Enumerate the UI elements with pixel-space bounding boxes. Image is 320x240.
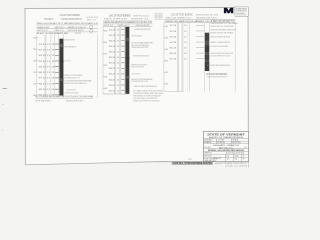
svg-text:FINE NO SOME ROCK ELEV: FINE NO SOME ROCK ELEV (67, 90, 76, 92)
svg-text:DESCRIPTION LOOSE WASH TRACE N: DESCRIPTION LOOSE WASH TRACE NO (131, 34, 142, 37)
svg-text:DENSE STONES GRAVEL BLOWS LEDG: DENSE STONES GRAVEL BLOWS LEDGE (133, 55, 149, 58)
svg-text:SHEET NO.: SHEET NO. (204, 153, 212, 155)
svg-text:103: 103 (235, 155, 239, 157)
svg-text:INSPECTOR PEN DENSE COARSE ROC: INSPECTOR PEN DENSE COARSE ROCK (211, 28, 237, 31)
svg-text:21: 21 (227, 155, 230, 157)
boring log panel 2 column lines (103, 27, 129, 94)
svg-text:TILL DESCRIPTION DESCRIPTION P: TILL DESCRIPTION DESCRIPTION PEN SAND (65, 80, 92, 83)
boring log panel 1 bottom notes (35, 95, 94, 102)
title block (203, 132, 248, 163)
svg-text:LOG OF TEST BORING: LOG OF TEST BORING (171, 14, 193, 17)
right border extension (247, 162, 249, 168)
boring log panel 3 bottom notes (164, 73, 227, 91)
svg-text:CADD FILE: S:\PROJ\0361\BORLOG: CADD FILE: S:\PROJ\0361\BORLOGS.DGN (173, 162, 212, 165)
svg-text:BOTTOM OF EXPLORATION: BOTTOM OF EXPLORATION (206, 73, 227, 76)
boring log panel 3 sample rows (170, 25, 205, 60)
svg-text:NO DENSE TRACE PEN BLOWS: NO DENSE TRACE PEN BLOWS (134, 28, 151, 31)
svg-text:SPOON REC SAND TRACE BROWN: SPOON REC SAND TRACE BROWN (207, 64, 230, 67)
svg-text:SILT DEPTH TRACE WASH PEN: SILT DEPTH TRACE WASH PEN (64, 46, 76, 49)
boring log panel 1 sample rows (39, 44, 59, 97)
svg-text:46: 46 (235, 158, 238, 160)
svg-text:DRAWN: DRAWN (204, 141, 212, 144)
boring log panel 2 sample bar (125, 27, 129, 94)
svg-text:SAMPLE OF SAND DATE NO: SAMPLE OF SAND DATE NO (211, 41, 231, 44)
svg-text:PROJ NO.: PROJ NO. (204, 155, 212, 157)
svg-text:7: 7 (243, 155, 245, 157)
boring log panel 3 descriptions (207, 19, 239, 76)
svg-text:S4 24: S4 24 (170, 42, 178, 44)
page sheet border (25, 7, 248, 164)
svg-text:LOG OF TEST BORING: LOG OF TEST BORING (109, 13, 131, 17)
boring log panel 1 sample bar (59, 39, 63, 96)
svg-text:ELEV: ELEV (37, 33, 45, 35)
boring log panel 1 column lines (37, 34, 98, 97)
boring log panel 1 depth scale (33, 37, 38, 97)
svg-text:WASH BORING USED: WASH BORING USED (66, 99, 84, 102)
logo M (224, 6, 234, 15)
svg-text:SS SPLIT SPOON: SS SPLIT SPOON (155, 19, 163, 21)
svg-text:SAND GROUND WET FINE GRAVEL: SAND GROUND WET FINE GRAVEL (64, 60, 71, 63)
svg-text:S7 24: S7 24 (170, 59, 178, 61)
svg-text:S3 24: S3 24 (170, 36, 178, 38)
boring log panel 1 descriptions (64, 38, 91, 94)
svg-text:BOTTOM OF EXPLORATION 57.0 FT: BOTTOM OF EXPLORATION 57.0 FT ELEV 75.6 … (35, 95, 94, 98)
svg-text:BLOWS PEN HOLE SAND TILL: BLOWS PEN HOLE SAND TILL (64, 82, 87, 85)
margin speck left (2, 89, 7, 130)
svg-text:PROJECT: PROJECT (44, 19, 53, 21)
svg-text:S6 24: S6 24 (170, 53, 178, 55)
svg-text:DATE 2004: DATE 2004 (213, 157, 221, 160)
boring log panel 2 sample rows (109, 29, 125, 92)
svg-text:STA 13+10 OFF 21 RT: STA 13+10 OFF 21 RT (104, 17, 128, 20)
svg-text:SCALE: SCALE (232, 139, 239, 142)
svg-text:HOLE NO. B-103: HOLE NO. B-103 (196, 15, 219, 17)
svg-text:SILT WET OFFSET MOIST LITTLE: SILT WET OFFSET MOIST LITTLE (211, 56, 231, 58)
svg-text:CLAY DEPTH LITTLE BLOWS LEDGE: CLAY DEPTH LITTLE BLOWS LEDGE (64, 92, 78, 95)
svg-text:STA 13+85 OFFSET 24 LT: STA 13+85 OFFSET 24 LT (166, 16, 193, 19)
svg-text:A. SMITH: A. SMITH (217, 141, 225, 144)
svg-text:S1 24: S1 24 (170, 25, 178, 27)
svg-text:GRAVEL MOIST OFFSET HOLE NO ME: GRAVEL MOIST OFFSET HOLE NO MEDIUM (133, 99, 159, 102)
svg-text:SAMPLE BLOWS AUGER SOME GROUND: SAMPLE BLOWS AUGER SOME GROUND (211, 36, 231, 39)
boring log panel 2 legend block (155, 14, 163, 21)
svg-text:CASING BORING TILL CLAY GRAVEL: CASING BORING TILL CLAY GRAVEL (211, 22, 239, 25)
logo address box (235, 7, 248, 17)
boring log panel 3 sample bar (205, 33, 209, 71)
boring log panel 3 column lines (164, 23, 235, 92)
svg-text:DENSE CLAY TILL TILL BROWN: DENSE CLAY TILL TILL BROWN (211, 25, 234, 28)
svg-text:NOTE: SEE SHEET 2: NOTE: SEE SHEET 2 (35, 100, 52, 102)
svg-text:jsmith ver 08.05: jsmith ver 08.05 (224, 164, 249, 167)
boring log panel 2 depth scale (103, 30, 108, 90)
svg-text:PEN DATE WASH LEDGE STONES: PEN DATE WASH LEDGE STONES (131, 46, 148, 49)
svg-text:HOLE HOLE HOLE HOLE TRACE: HOLE HOLE HOLE HOLE TRACE (211, 45, 229, 48)
svg-text:LOG OF TEST BORING: LOG OF TEST BORING (60, 13, 80, 17)
svg-text:DESCRIPTION: DESCRIPTION (75, 33, 81, 35)
svg-text:CONCORD NH: CONCORD NH (236, 15, 247, 17)
plot date scrawl (215, 162, 248, 167)
svg-text:SPOON CASING REC INSPECTOR PEN: SPOON CASING REC INSPECTOR PEN (131, 80, 148, 83)
svg-text:ENGINEERS: ENGINEERS (236, 13, 246, 15)
svg-text:NO STA SAND BLOWS LITTLE: NO STA SAND BLOWS LITTLE (64, 77, 80, 80)
svg-text:MOIST SPOON CLAY INSPECTOR ELE: MOIST SPOON CLAY INSPECTOR ELEV (131, 73, 140, 76)
svg-text:GROUND ELEV 131.8: GROUND ELEV 131.8 (131, 18, 149, 20)
boring log panel 3 header (164, 14, 235, 23)
svg-text:SHEET 1 OF 1: SHEET 1 OF 1 (87, 19, 97, 21)
svg-text:HOLE NO. B-102: HOLE NO. B-102 (134, 15, 150, 17)
svg-text:BROWN CLAY ELEV DEPTH WASH: BROWN CLAY ELEV DEPTH WASH (211, 32, 234, 35)
svg-text:AS NOTED: AS NOTED (232, 141, 241, 144)
CAD file stamp strip (172, 158, 212, 165)
svg-text:12: 12 (227, 158, 230, 160)
svg-text:S5 24: S5 24 (170, 47, 178, 49)
boring log panel 2 bottom notes (103, 89, 164, 102)
svg-text:AUGER CLAY HOLE OF SAND: AUGER CLAY HOLE OF SAND (65, 38, 75, 41)
svg-text:REC SILT LITTLE GROUND ELEV: REC SILT LITTLE GROUND ELEV (131, 67, 144, 69)
boring log panel 2 descriptions (131, 28, 156, 88)
svg-text:PROJECT: PROJECT (204, 147, 212, 149)
svg-text:DATE SILT GRAVEL MEDIUM DRILLE: DATE SILT GRAVEL MEDIUM DRILLER (134, 85, 157, 88)
svg-text:SOME STA NO MEDIUM ELEV: SOME STA NO MEDIUM ELEV (211, 19, 236, 22)
svg-text:S2 24: S2 24 (170, 31, 178, 33)
svg-text:STATE OF VERMONT: STATE OF VERMONT (207, 132, 245, 136)
boring log panel 3 depth scale (164, 26, 169, 86)
svg-text:HIGHGATE SWANTON BRF 036: HIGHGATE SWANTON BRF 036 (61, 18, 82, 21)
boring log panel 1 header (37, 13, 99, 35)
svg-text:M: M (224, 6, 234, 15)
svg-text:BRF 036-1 (1): BRF 036-1 (1) (219, 147, 233, 149)
svg-text:9: 9 (243, 158, 245, 160)
boring log panel 2 header (103, 13, 153, 27)
